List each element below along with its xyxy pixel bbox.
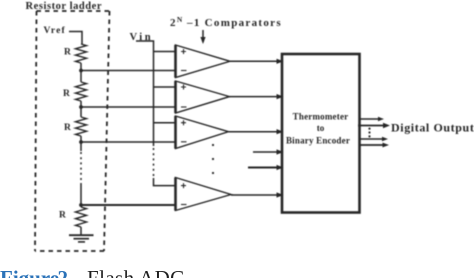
svg-text:R: R xyxy=(64,123,71,133)
svg-text:Resistor ladder: Resistor ladder xyxy=(26,1,103,12)
svg-text:R: R xyxy=(63,89,70,99)
svg-text:Thermometer: Thermometer xyxy=(293,112,349,122)
svg-text:to: to xyxy=(317,123,325,133)
svg-text:2N –1 Comparators: 2N –1 Comparators xyxy=(170,15,282,29)
svg-text:Figure: Figure xyxy=(0,266,59,278)
svg-text:Flash ADC: Flash ADC xyxy=(87,266,185,278)
svg-text:Digital Output: Digital Output xyxy=(391,121,474,135)
svg-text:Binary Encoder: Binary Encoder xyxy=(286,135,350,145)
svg-text:R: R xyxy=(59,211,66,221)
svg-text:Vin: Vin xyxy=(130,32,154,43)
svg-text:R: R xyxy=(64,48,71,58)
svg-text:2.: 2. xyxy=(58,266,74,278)
svg-text:Vref: Vref xyxy=(44,26,66,36)
